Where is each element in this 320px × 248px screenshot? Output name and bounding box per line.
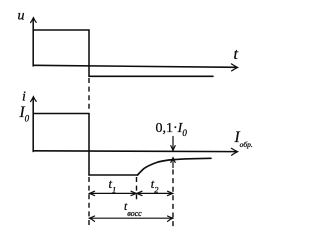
u-axis arrowhead bbox=[31, 18, 37, 23]
reverse recovery curve bbox=[138, 158, 212, 175]
voltage negative level bbox=[89, 75, 213, 77]
voltage pulse falling edge bbox=[88, 30, 90, 76]
bottom axis arrowhead bbox=[231, 148, 237, 155]
current pulse top at I0 bbox=[33, 113, 89, 115]
dashed line below left edge x=89 bbox=[88, 177, 90, 228]
t_vost interval double arrow bbox=[90, 217, 173, 219]
svg-text:t: t bbox=[234, 46, 239, 63]
voltage pulse top bbox=[33, 29, 89, 31]
reverse current flat level bbox=[89, 174, 138, 176]
t1 interval double arrow bbox=[90, 192, 136, 194]
svg-text:i: i bbox=[22, 90, 26, 105]
down arrow from 0,1*I0 label to axis bbox=[172, 137, 174, 151]
dashed line at end of recovery x=173 bbox=[172, 170, 174, 229]
dashed line at end of t1 x=136.5 bbox=[136, 177, 138, 201]
t2 interval double arrow bbox=[137, 192, 173, 194]
dashed line between plots at pulse edge bbox=[88, 78, 90, 112]
t-axis arrowhead bbox=[231, 64, 237, 71]
i-axis arrowhead bbox=[31, 97, 37, 102]
i-axis horizontal line (bottom plot) bbox=[33, 150, 236, 153]
current falling edge bbox=[88, 114, 90, 176]
i-axis vertical line bbox=[32, 98, 34, 152]
svg-text:u: u bbox=[18, 9, 25, 24]
t-axis horizontal line (top plot) bbox=[33, 65, 236, 67]
up arrow to recovery level bbox=[172, 158, 174, 167]
u-axis vertical line bbox=[32, 19, 34, 66]
